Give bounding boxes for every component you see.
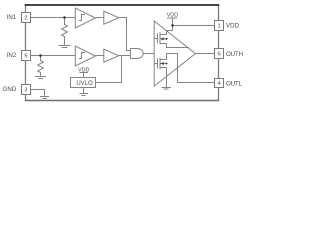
svg-text:IN2: IN2 — [7, 52, 17, 59]
svg-text:VDD: VDD — [226, 22, 240, 29]
svg-text:GND: GND — [3, 86, 17, 93]
svg-text:6: 6 — [217, 51, 220, 57]
svg-text:OUTH: OUTH — [226, 51, 243, 58]
svg-text:IN1: IN1 — [7, 14, 17, 21]
svg-text:1: 1 — [217, 23, 220, 29]
svg-text:4: 4 — [217, 81, 220, 87]
svg-text:2: 2 — [24, 15, 27, 21]
svg-text:5: 5 — [24, 53, 27, 59]
svg-text:UVLO: UVLO — [76, 81, 93, 87]
svg-text:OUTL: OUTL — [226, 81, 242, 88]
svg-text:VDD: VDD — [78, 67, 89, 73]
svg-text:VDD: VDD — [167, 12, 178, 18]
svg-text:3: 3 — [24, 87, 27, 93]
